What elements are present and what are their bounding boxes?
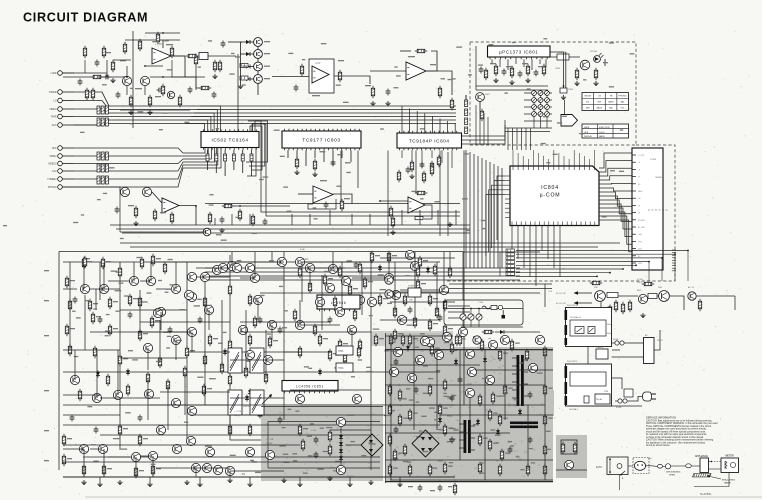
value label bbox=[416, 401, 419, 402]
resistor R21 bbox=[228, 284, 231, 297]
wire hook IC502 top 2 bbox=[197, 110, 217, 132]
transistor Q3 bbox=[295, 394, 304, 403]
wire from jack TAPE bbox=[62, 116, 74, 118]
svg-text:L2: L2 bbox=[638, 162, 640, 164]
cord wire bbox=[646, 465, 657, 468]
capacitor C121 bbox=[220, 217, 225, 224]
capacitor C803 bbox=[534, 70, 539, 77]
resistor R304 bbox=[232, 154, 235, 161]
wire fuse-plug bbox=[631, 397, 643, 402]
value label bbox=[164, 40, 169, 41]
wire drop IC604 pin 4 bbox=[424, 114, 426, 134]
resistor R317 bbox=[422, 171, 425, 184]
wire gnd stub bbox=[299, 477, 301, 482]
value label bbox=[264, 66, 270, 67]
svg-text:INSULATING: INSULATING bbox=[722, 479, 735, 482]
value label bbox=[453, 429, 458, 430]
wire gray seg bbox=[385, 459, 553, 461]
value label bbox=[366, 367, 371, 368]
value label bbox=[482, 228, 486, 229]
junction bbox=[478, 308, 480, 310]
value label bbox=[433, 323, 438, 324]
connector notes bbox=[648, 209, 668, 211]
value label bbox=[163, 112, 168, 113]
value label bbox=[496, 396, 501, 397]
value label bbox=[343, 343, 348, 344]
resistor R29 bbox=[416, 279, 419, 292]
wire gnd stub bbox=[399, 477, 401, 482]
ground G18 bbox=[219, 228, 224, 233]
wire vert rail L5 bbox=[370, 252, 372, 470]
resistor R130 bbox=[85, 88, 88, 101]
wire drop x448 bbox=[447, 152, 449, 236]
value label bbox=[128, 350, 133, 351]
value label bbox=[557, 122, 562, 123]
op-amp IC301 bbox=[313, 186, 333, 203]
IC U804 (IC804 u-COM) bbox=[510, 166, 599, 226]
svg-text:SW: SW bbox=[410, 300, 413, 302]
wire hook IC502 top 1 bbox=[200, 106, 221, 132]
resistor R201 bbox=[240, 64, 248, 68]
value label bbox=[448, 486, 452, 487]
value label bbox=[91, 444, 96, 445]
value label bbox=[344, 198, 350, 199]
svg-text:2SB794: 2SB794 bbox=[243, 406, 251, 408]
wire bus L5 bbox=[74, 120, 456, 125]
svg-text:LC4058 IC851: LC4058 IC851 bbox=[296, 385, 324, 389]
wire IC202 out bbox=[426, 71, 452, 95]
wire opamp to R125 bbox=[171, 55, 185, 57]
wire seg v bbox=[257, 300, 259, 320]
value label bbox=[308, 368, 312, 369]
junction comb 6 bbox=[622, 268, 624, 270]
node arrow B+DC2 bbox=[574, 301, 579, 305]
value label bbox=[252, 233, 257, 234]
value label bbox=[390, 410, 395, 411]
resistor R118 bbox=[83, 46, 86, 59]
value label bbox=[467, 384, 472, 385]
ground G11 bbox=[525, 78, 530, 83]
capacitor C105 bbox=[188, 87, 193, 94]
power block shading B bbox=[261, 406, 383, 481]
switch SW1 bbox=[228, 348, 242, 373]
wire IC804 bottom drop 9 bbox=[559, 226, 561, 277]
wire pot to bus 1 bbox=[507, 128, 509, 150]
value label bbox=[394, 66, 397, 67]
wire gray bottom rail bbox=[385, 481, 553, 483]
value label bbox=[462, 198, 468, 199]
diode D701 bbox=[500, 330, 504, 334]
wire stack bbox=[465, 95, 467, 100]
wire bus M1 bbox=[74, 148, 205, 154]
wire IC801 pin 6 bbox=[531, 59, 533, 70]
resistor R37 bbox=[82, 464, 85, 477]
wire IC603 pin drop 6 bbox=[332, 150, 334, 166]
value label bbox=[398, 333, 403, 334]
wire loop IC502-2 bbox=[249, 124, 265, 167]
transistor Q611 bbox=[204, 305, 213, 314]
wire vertical bundle V3 bbox=[473, 154, 475, 268]
wire stack bbox=[465, 95, 467, 100]
capacitor C14 bbox=[138, 415, 143, 422]
resistor R853 bbox=[301, 439, 304, 452]
transistor Q637 bbox=[191, 463, 200, 472]
wire lower bus C3 bbox=[260, 292, 540, 294]
wire top rail 33 bbox=[145, 32, 180, 34]
value label bbox=[619, 171, 624, 172]
resistor R801 bbox=[494, 64, 497, 77]
resistor R111 bbox=[388, 404, 391, 417]
bridge rectifier DB852 bbox=[361, 434, 383, 456]
svg-text:2SD: 2SD bbox=[594, 287, 598, 289]
svg-text:MIN: MIN bbox=[598, 102, 602, 104]
value label bbox=[358, 359, 363, 360]
value label bbox=[146, 292, 151, 293]
wire gray seg bbox=[385, 335, 453, 337]
wire to IC201 bbox=[272, 76, 309, 78]
inductor L701 bbox=[607, 293, 618, 298]
wire power rail A bbox=[563, 52, 565, 88]
diode arrow D202 bbox=[246, 52, 250, 56]
wire stack bbox=[465, 95, 467, 100]
value label bbox=[121, 448, 127, 449]
value label bbox=[259, 179, 264, 180]
resistor R22 bbox=[248, 294, 251, 307]
wire seg extra v bbox=[69, 262, 71, 350]
wire from jack LO bbox=[62, 100, 74, 102]
wire to power sw bbox=[393, 291, 408, 293]
transistor Q104 bbox=[142, 187, 151, 196]
value label bbox=[531, 462, 535, 463]
resistor R95 bbox=[430, 344, 433, 357]
value label bbox=[546, 162, 550, 163]
value label bbox=[105, 335, 109, 336]
wire seg bbox=[400, 289, 440, 291]
transistor Q612 bbox=[187, 327, 196, 336]
transistor Q703 bbox=[659, 291, 670, 302]
wire seg bbox=[196, 267, 230, 269]
capacitor C109 bbox=[78, 79, 83, 86]
svg-text:AUX: AUX bbox=[52, 124, 57, 127]
value label bbox=[369, 315, 373, 316]
resistor R43 bbox=[228, 424, 231, 437]
value label bbox=[416, 361, 420, 362]
transistor Q625 bbox=[410, 261, 419, 270]
wire LED down bbox=[604, 59, 606, 66]
wire patch rail bbox=[556, 469, 587, 471]
value label bbox=[433, 298, 438, 299]
value label bbox=[405, 275, 410, 276]
resistor R103 bbox=[388, 384, 391, 397]
ground G21 bbox=[238, 84, 243, 89]
value label bbox=[465, 153, 469, 154]
connector pin 7 bbox=[632, 197, 636, 199]
svg-text:IC 804: IC 804 bbox=[637, 279, 644, 281]
wire cell h3 bbox=[120, 109, 190, 111]
resistor R114 bbox=[438, 404, 441, 417]
wire top of lower right bbox=[463, 251, 540, 253]
wire drop to bus A bbox=[419, 210, 421, 225]
value label bbox=[522, 63, 528, 64]
svg-text:AC LNE: AC LNE bbox=[638, 226, 645, 229]
wire drop to bus A bbox=[291, 214, 293, 225]
wire pot to bus 4 bbox=[521, 128, 523, 150]
value label bbox=[328, 278, 333, 279]
diode D852 bbox=[339, 434, 343, 441]
resistor R59 bbox=[343, 352, 346, 365]
wire seg extra bbox=[160, 391, 230, 393]
value label bbox=[282, 427, 286, 428]
wire drop to bus A bbox=[329, 210, 331, 225]
capacitor C107 bbox=[212, 92, 217, 99]
resistor R94 bbox=[401, 334, 404, 347]
ground G16 bbox=[447, 222, 452, 227]
resistor R84 bbox=[298, 266, 301, 279]
resistor R97 bbox=[458, 334, 461, 347]
value label bbox=[44, 460, 49, 461]
transformer box TRANSF bbox=[596, 349, 608, 359]
value label bbox=[481, 220, 486, 221]
value label bbox=[86, 258, 90, 259]
value label bbox=[373, 328, 379, 329]
value label bbox=[375, 255, 380, 256]
ground bbox=[97, 482, 102, 487]
trimmer VR34 bbox=[545, 112, 550, 117]
value label bbox=[547, 449, 551, 450]
connector pin 14 bbox=[632, 248, 636, 250]
ground bbox=[297, 482, 302, 487]
transistor Q2 bbox=[263, 355, 272, 364]
transformer T701 core bbox=[517, 355, 524, 406]
connector pin 16 bbox=[632, 262, 636, 264]
wire comb 3 bbox=[516, 257, 662, 259]
wire seg v bbox=[95, 289, 97, 310]
resistor R60 bbox=[328, 349, 331, 362]
diode D7 bbox=[426, 267, 430, 274]
transistor Q638 bbox=[202, 463, 211, 472]
resistor R83 bbox=[435, 306, 438, 319]
transistor Q609 bbox=[187, 292, 196, 301]
wire IC804 bottom drop 4 bbox=[529, 226, 531, 277]
value label bbox=[449, 462, 453, 463]
value label bbox=[288, 53, 293, 54]
value label bbox=[379, 338, 384, 339]
resistor R129 bbox=[443, 462, 446, 475]
capacitor C10 bbox=[408, 307, 413, 314]
resistor R123 bbox=[488, 439, 491, 452]
connector pin 1 bbox=[632, 154, 636, 156]
wire gnd stub bbox=[199, 477, 201, 482]
value label bbox=[312, 95, 320, 96]
value label bbox=[93, 303, 98, 304]
svg-text:GND: GND bbox=[638, 263, 643, 265]
relay RL701 contact 1 bbox=[575, 327, 584, 334]
wire seg bbox=[230, 470, 284, 472]
ground bbox=[117, 480, 122, 485]
resistor R56 bbox=[393, 329, 396, 342]
value label bbox=[462, 338, 466, 339]
wire seg extra bbox=[284, 351, 330, 353]
connector pin 10 bbox=[632, 219, 636, 221]
IC U604 (TC9184P IC604) pins bbox=[400, 131, 457, 150]
connector pin 11 bbox=[632, 226, 636, 228]
resistor R806 bbox=[575, 68, 578, 81]
wire mid bus A3 bbox=[122, 232, 470, 234]
wire bus L6 bbox=[74, 123, 456, 125]
value label bbox=[482, 378, 487, 379]
component box FU760 bbox=[561, 440, 577, 454]
wire to D201 bbox=[240, 41, 254, 43]
transistor Q633 bbox=[187, 406, 196, 415]
resistor R411 bbox=[430, 164, 433, 177]
wire bottom rail 3 bbox=[63, 461, 380, 463]
plug oval 2 bbox=[686, 464, 692, 468]
value label bbox=[392, 255, 397, 256]
wire IC604 out 3 bbox=[462, 130, 506, 144]
resistor R4 bbox=[151, 254, 154, 267]
control loop outline bbox=[444, 300, 523, 325]
value label bbox=[393, 458, 398, 459]
svg-text:L3: L3 bbox=[638, 169, 640, 171]
connector aux pin 4 bbox=[672, 257, 676, 259]
resistor R7 bbox=[108, 297, 111, 310]
resistor R116 bbox=[153, 209, 156, 222]
wire Q851-D852 bbox=[340, 427, 342, 434]
wire vert rail L4 bbox=[283, 252, 285, 420]
value label bbox=[287, 211, 292, 212]
wire pot2 dn bbox=[470, 320, 472, 327]
value label bbox=[406, 388, 410, 389]
value label bbox=[166, 289, 172, 290]
resistor R101 bbox=[525, 349, 528, 362]
svg-text:T805: T805 bbox=[338, 350, 344, 353]
resistor R124 bbox=[500, 449, 503, 462]
value label bbox=[548, 350, 553, 351]
ground bbox=[81, 480, 86, 485]
capacitor C17 bbox=[394, 359, 399, 366]
wire drop to bus A bbox=[231, 214, 233, 225]
value label bbox=[85, 300, 89, 301]
IC P501 (LC4966) pins bbox=[320, 309, 355, 311]
wire drop to bus A bbox=[369, 214, 371, 225]
resistor R115 bbox=[134, 206, 137, 219]
wire comb 4 bbox=[516, 261, 649, 263]
wire comb drop 2 bbox=[674, 254, 676, 281]
value label bbox=[44, 335, 49, 336]
value label bbox=[583, 79, 586, 80]
ground G3 bbox=[147, 110, 152, 115]
value label bbox=[247, 361, 251, 362]
wire mid bus B1 bbox=[205, 267, 520, 269]
capacitor C22 bbox=[450, 437, 455, 444]
gray texture bbox=[263, 336, 544, 482]
value label bbox=[283, 462, 289, 463]
resistor R42 bbox=[138, 434, 141, 447]
svg-text:B+ DC IN: B+ DC IN bbox=[556, 293, 566, 295]
cord plug small bbox=[657, 465, 662, 469]
relay RL701 inner bbox=[570, 320, 606, 336]
value label bbox=[408, 56, 415, 57]
value label bbox=[452, 395, 456, 396]
transistor Q603 bbox=[146, 276, 155, 285]
transistor Q608 bbox=[227, 261, 236, 270]
capacitor C12 bbox=[70, 415, 75, 422]
transistor Q10 bbox=[113, 390, 122, 399]
value label bbox=[438, 460, 443, 461]
value label bbox=[209, 194, 213, 195]
svg-text:APPLIANCE: APPLIANCE bbox=[695, 455, 708, 458]
transistor Q760 bbox=[564, 460, 573, 469]
wire IC502 pin drop 5 bbox=[242, 150, 244, 154]
capacitor C851 bbox=[314, 437, 319, 444]
value label bbox=[87, 261, 92, 262]
value label bbox=[350, 441, 355, 442]
transistor Q623 bbox=[384, 273, 393, 282]
value label bbox=[483, 438, 488, 439]
resistor R33 bbox=[387, 251, 390, 264]
resistor R50 bbox=[202, 384, 205, 397]
value label bbox=[313, 207, 316, 208]
value label bbox=[403, 461, 409, 462]
wire drop IC604 pin 6 bbox=[439, 119, 441, 134]
resistor R19 bbox=[268, 336, 271, 349]
resistor R118 bbox=[388, 434, 391, 447]
wire seg extra v bbox=[167, 385, 169, 430]
wire opamp out bbox=[171, 56, 185, 77]
wire IC804-CN 11 bbox=[599, 208, 632, 229]
wire pot3 dn bbox=[478, 320, 480, 327]
wire seg extra v bbox=[204, 282, 206, 360]
resistor R124 bbox=[251, 214, 254, 227]
wire IC301 feedback bbox=[308, 199, 336, 209]
wire cell top bbox=[113, 59, 131, 61]
value label bbox=[302, 59, 305, 60]
capacitor C102 bbox=[104, 75, 111, 80]
resistor R6 bbox=[88, 299, 91, 312]
value label bbox=[383, 298, 388, 299]
resistor network RN3 bbox=[97, 152, 108, 160]
resistor R851 bbox=[328, 430, 331, 443]
value label bbox=[336, 85, 341, 86]
wire gray seg v bbox=[469, 398, 471, 420]
IC804 top pins bbox=[513, 150, 595, 170]
wire IC804-CN 4 bbox=[599, 176, 632, 180]
transistor Q851 bbox=[336, 417, 345, 426]
wire phono in bbox=[63, 187, 120, 192]
ground bbox=[397, 482, 402, 487]
resistor ladder R506 bbox=[506, 269, 515, 272]
resistor R852 bbox=[328, 444, 331, 457]
resistor R133 bbox=[543, 464, 546, 477]
value label bbox=[44, 300, 49, 301]
svg-text:TRANSF: TRANSF bbox=[596, 346, 604, 349]
wire grayB top rail bbox=[268, 421, 380, 423]
wire input to Q1 bbox=[63, 76, 122, 78]
wire IC201 out bbox=[334, 76, 370, 84]
value label bbox=[451, 78, 456, 79]
wire bus L1 bbox=[74, 92, 456, 106]
wire cell v2 bbox=[195, 66, 197, 90]
relay RL701 contact 2 bbox=[588, 327, 595, 334]
svg-text:RAD1: RAD1 bbox=[638, 190, 643, 193]
wire IC801 lower rail bbox=[476, 85, 548, 87]
resistor R3 bbox=[140, 257, 143, 270]
value label bbox=[506, 66, 513, 67]
wire jack1 right bbox=[63, 72, 107, 74]
capacitor C8 bbox=[328, 317, 333, 324]
resistor R707 bbox=[482, 330, 495, 333]
svg-text:circuit as shown below.: circuit as shown below. bbox=[646, 444, 670, 447]
